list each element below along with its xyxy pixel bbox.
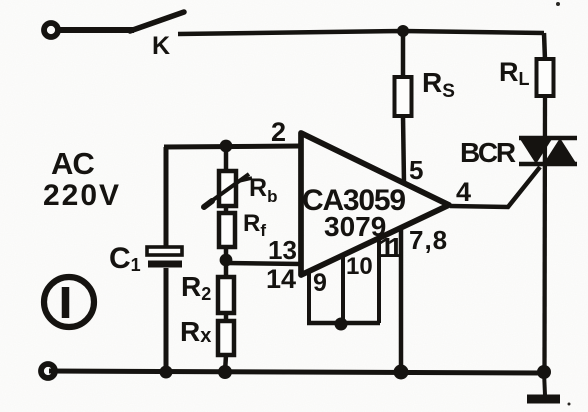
svg-text:9: 9 bbox=[313, 269, 327, 297]
svg-text:4: 4 bbox=[456, 177, 471, 207]
svg-text:7,8: 7,8 bbox=[409, 225, 448, 255]
svg-text:5: 5 bbox=[409, 155, 423, 185]
svg-text:3079: 3079 bbox=[324, 211, 386, 242]
svg-text:BCR: BCR bbox=[460, 137, 516, 168]
svg-text:13: 13 bbox=[268, 235, 297, 265]
svg-text:AC: AC bbox=[51, 146, 94, 181]
svg-text:K: K bbox=[152, 32, 170, 60]
svg-text:1: 1 bbox=[388, 232, 404, 263]
svg-text:14: 14 bbox=[266, 264, 296, 294]
svg-text:10: 10 bbox=[346, 253, 373, 280]
svg-text:2: 2 bbox=[271, 117, 286, 147]
svg-text:220V: 220V bbox=[43, 179, 121, 212]
